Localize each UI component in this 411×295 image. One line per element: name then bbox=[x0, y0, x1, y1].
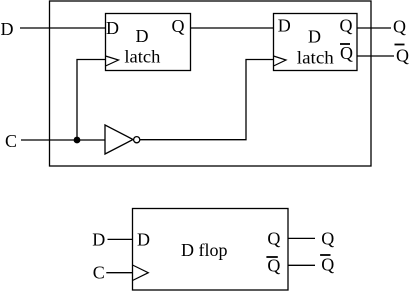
svg-text:latch: latch bbox=[297, 48, 334, 68]
svg-text:Q: Q bbox=[340, 43, 353, 63]
svg-text:Q: Q bbox=[267, 229, 280, 249]
svg-text:C: C bbox=[93, 263, 105, 283]
svg-text:Q: Q bbox=[340, 15, 353, 35]
svg-text:D: D bbox=[136, 26, 149, 46]
svg-text:D: D bbox=[92, 229, 105, 249]
svg-text:Q: Q bbox=[393, 17, 406, 37]
svg-text:latch: latch bbox=[124, 47, 160, 67]
svg-text:D: D bbox=[308, 27, 321, 47]
svg-text:Q: Q bbox=[321, 229, 334, 249]
svg-text:Q: Q bbox=[267, 256, 280, 276]
svg-text:D: D bbox=[1, 19, 14, 39]
svg-text:Q: Q bbox=[396, 46, 409, 66]
svg-text:D: D bbox=[106, 18, 119, 38]
svg-text:D: D bbox=[137, 229, 150, 249]
svg-text:Q: Q bbox=[321, 255, 334, 275]
svg-text:D flop: D flop bbox=[181, 240, 228, 260]
svg-text:C: C bbox=[5, 131, 17, 151]
svg-text:D: D bbox=[278, 16, 291, 36]
svg-text:Q: Q bbox=[172, 16, 185, 36]
